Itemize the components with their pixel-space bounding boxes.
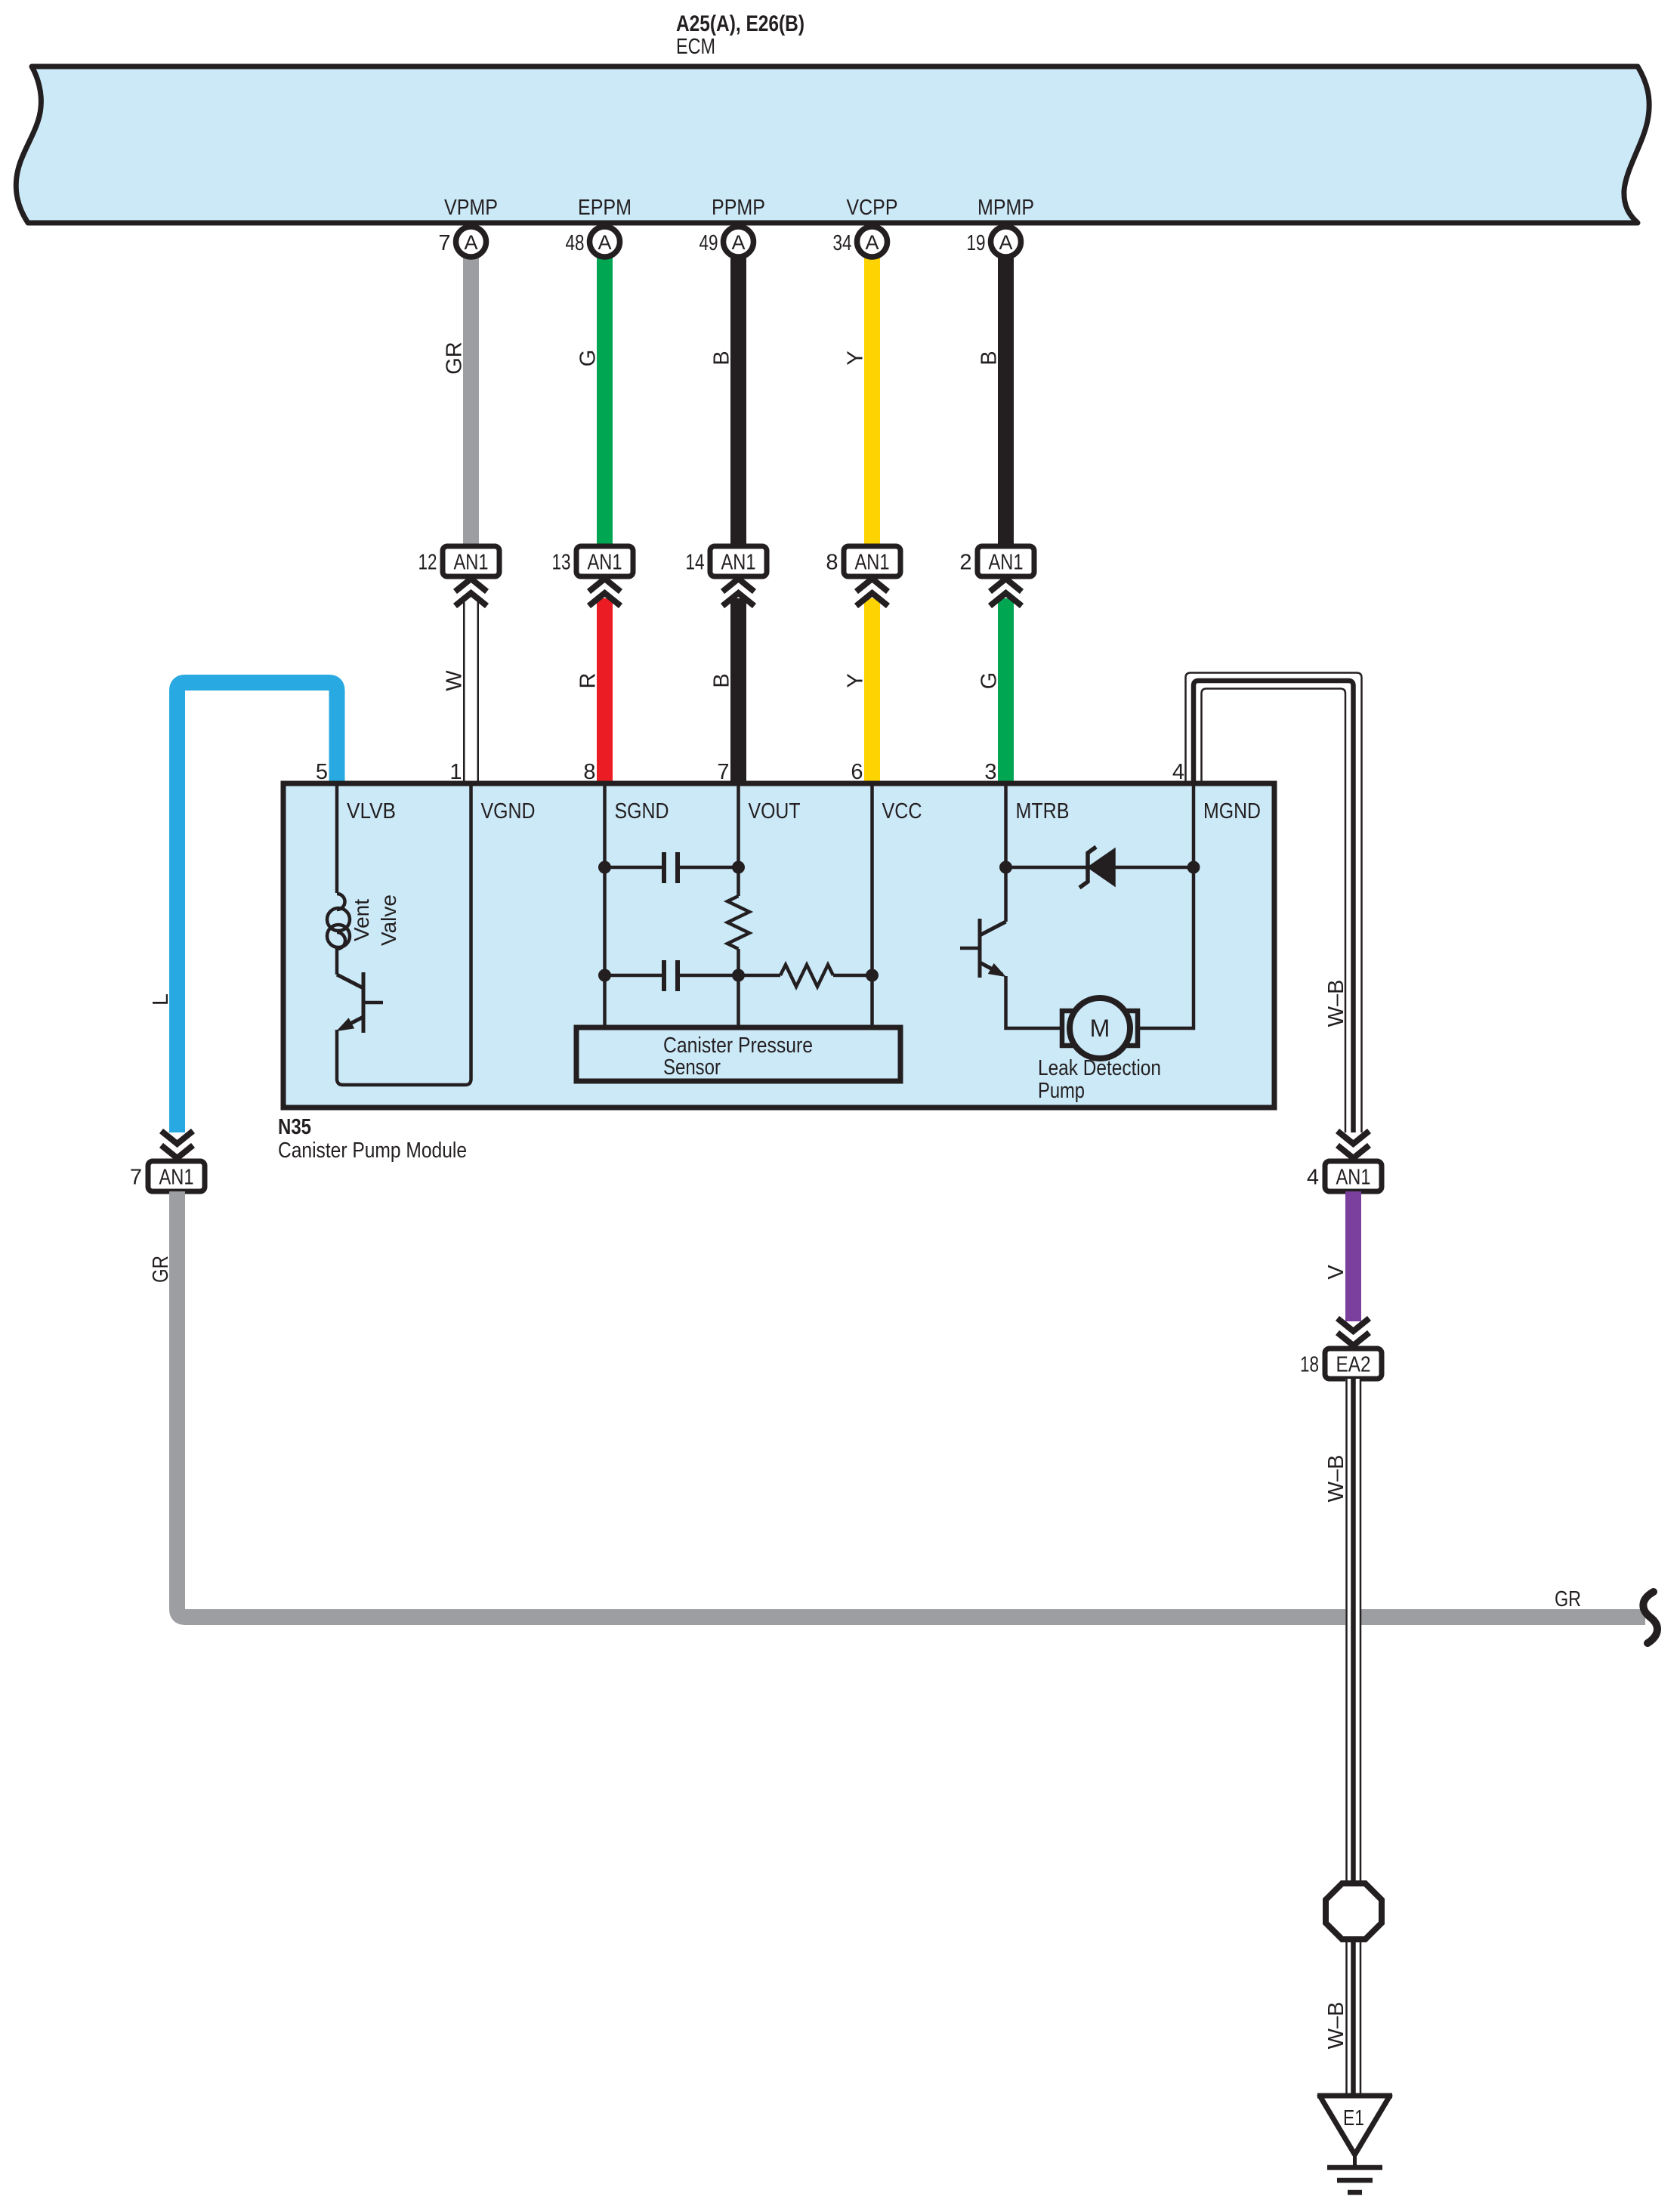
- svg-text:AN1: AN1: [588, 551, 622, 575]
- leak detection pump motor M: [1062, 998, 1138, 1058]
- svg-text:7: 7: [717, 760, 729, 784]
- svg-text:M: M: [1090, 1015, 1110, 1042]
- junction chevrons under AN1 2: [990, 579, 1022, 606]
- svg-text:1: 1: [449, 760, 462, 784]
- wire Y from AN1 to module pin: [844, 598, 881, 783]
- wire Y from ECM pin 34 to AN1: [844, 258, 881, 546]
- VOUT line with resistor R1: [727, 783, 749, 1027]
- resistor R2 horizontal: [739, 965, 872, 987]
- svg-text:A: A: [999, 231, 1012, 254]
- svg-text:Canister Pressure: Canister Pressure: [663, 1033, 813, 1058]
- svg-text:Canister Pump Module: Canister Pump Module: [278, 1139, 467, 1163]
- ECM connector terminal 19 (A): [967, 227, 1021, 257]
- capacitor C1: [605, 852, 739, 883]
- svg-text:VOUT: VOUT: [749, 799, 801, 823]
- ECM pin label MPMP: [977, 196, 1034, 220]
- wire G from ECM pin 48 to AN1: [576, 258, 613, 546]
- svg-text:VGND: VGND: [481, 799, 536, 823]
- module pin 4 MGND: [1172, 760, 1261, 823]
- svg-text:Sensor: Sensor: [663, 1055, 721, 1080]
- module N35 name label: [278, 1115, 467, 1163]
- module pin 8 SGND: [583, 760, 669, 823]
- svg-text:EA2: EA2: [1336, 1353, 1371, 1377]
- module pin 1 VGND: [449, 760, 535, 823]
- svg-text:VPMP: VPMP: [444, 196, 498, 220]
- wire W-B from MGND pin 4 to AN1 4: [1186, 673, 1362, 1133]
- svg-text:A25(A), E26(B): A25(A), E26(B): [676, 11, 804, 36]
- svg-text:A: A: [464, 231, 477, 254]
- ECM pin label VPMP: [444, 196, 498, 220]
- connector AN1 pin 13: [552, 546, 634, 576]
- svg-text:VCC: VCC: [882, 799, 922, 823]
- svg-text:E1: E1: [1343, 2106, 1364, 2130]
- svg-text:18: 18: [1300, 1353, 1319, 1377]
- wire B from AN1 to module pin: [710, 598, 747, 783]
- svg-text:4: 4: [1172, 760, 1184, 784]
- wire B from ECM pin 19 to AN1: [977, 258, 1014, 546]
- svg-text:B: B: [710, 673, 734, 687]
- svg-text:EPPM: EPPM: [578, 196, 632, 220]
- svg-text:GR: GR: [1555, 1587, 1581, 1611]
- svg-text:48: 48: [566, 231, 585, 255]
- ECM connector terminal 7 (A): [438, 227, 486, 257]
- capacitor C2: [605, 960, 739, 991]
- ECM connector terminal 48 (A): [566, 227, 620, 257]
- wire GR from ECM pin 7 to AN1: [443, 258, 480, 546]
- junction chevrons above EA2: [1338, 1318, 1370, 1346]
- svg-text:ECM: ECM: [676, 35, 715, 59]
- svg-text:13: 13: [552, 551, 571, 575]
- node on VCC: [866, 969, 879, 982]
- octagon splice junction: [1326, 1883, 1382, 1939]
- svg-text:W–B: W–B: [1324, 980, 1348, 1027]
- svg-text:AN1: AN1: [721, 551, 756, 575]
- connector AN1 pin 7: [130, 1161, 205, 1191]
- connector AN1 pin 8: [826, 546, 900, 576]
- svg-text:B: B: [977, 351, 1002, 365]
- svg-text:5: 5: [316, 760, 328, 784]
- ECM connector terminal 34 (A): [833, 227, 888, 257]
- leak pump transistor Q2: [960, 919, 1006, 978]
- svg-text:B: B: [710, 351, 734, 365]
- svg-text:7: 7: [438, 231, 450, 255]
- connector AN1 pin 14: [686, 546, 767, 576]
- svg-text:L: L: [149, 993, 173, 1006]
- svg-text:VCPP: VCPP: [847, 196, 898, 220]
- svg-text:N35: N35: [278, 1115, 311, 1139]
- node on SGND bottom: [598, 969, 611, 982]
- canister pressure sensor SGND line: [603, 783, 607, 1027]
- svg-text:AN1: AN1: [159, 1166, 194, 1190]
- connector AN1 pin 4: [1307, 1161, 1382, 1191]
- svg-text:8: 8: [583, 760, 595, 784]
- wire break squiggle at GR right end: [1643, 1592, 1657, 1643]
- wire Q2 emitter to motor: [1006, 976, 1067, 1028]
- motor to MGND wire: [1138, 783, 1194, 1028]
- wire W-B from octagon to ground E1: [1324, 1939, 1360, 2096]
- svg-text:7: 7: [130, 1166, 142, 1190]
- svg-text:PPMP: PPMP: [712, 196, 765, 220]
- wire R from AN1 to module pin: [576, 598, 613, 783]
- wire W-B from EA2 to octagon junction: [1324, 1379, 1361, 1883]
- junction chevrons under AN1 14: [723, 579, 755, 606]
- svg-text:2: 2: [959, 551, 971, 575]
- svg-text:AN1: AN1: [454, 551, 489, 575]
- svg-text:Y: Y: [844, 673, 868, 687]
- svg-text:19: 19: [967, 231, 986, 255]
- svg-text:V: V: [1324, 1265, 1348, 1280]
- svg-text:W: W: [443, 670, 467, 691]
- svg-text:A: A: [598, 231, 611, 254]
- svg-text:A: A: [731, 231, 745, 254]
- svg-text:GR: GR: [149, 1256, 173, 1283]
- junction chevrons above AN1 4: [1338, 1131, 1370, 1158]
- connector AN1 pin 12: [418, 546, 500, 576]
- vent valve coil L1: [327, 783, 400, 975]
- ECM title label: [676, 11, 804, 59]
- module pin 7 VOUT: [717, 760, 800, 823]
- svg-text:49: 49: [699, 231, 718, 255]
- svg-text:Y: Y: [844, 351, 868, 365]
- module N35 box: [283, 783, 1274, 1108]
- svg-text:VLVB: VLVB: [347, 799, 396, 823]
- svg-text:AN1: AN1: [989, 551, 1024, 575]
- svg-text:GR: GR: [443, 341, 467, 375]
- ground point E1: [1317, 2096, 1392, 2155]
- svg-text:SGND: SGND: [615, 799, 669, 823]
- svg-text:G: G: [576, 350, 601, 367]
- chassis ground symbol: [1327, 2155, 1382, 2192]
- node on VOUT bottom: [732, 969, 745, 982]
- svg-text:MTRB: MTRB: [1016, 799, 1070, 823]
- svg-text:W–B: W–B: [1324, 1455, 1348, 1503]
- module pin 6 VCC: [851, 760, 922, 823]
- svg-text:3: 3: [984, 760, 996, 784]
- junction chevrons under AN1 8: [857, 579, 888, 606]
- ECM connector terminal 49 (A): [699, 227, 754, 257]
- svg-text:Valve: Valve: [377, 894, 400, 946]
- svg-text:MGND: MGND: [1203, 799, 1261, 823]
- connector EA2 pin 18: [1300, 1349, 1382, 1379]
- canister pressure sensor box: [576, 1027, 900, 1081]
- svg-text:R: R: [576, 673, 601, 689]
- svg-text:Vent: Vent: [350, 899, 373, 941]
- ECM pin label PPMP: [712, 196, 765, 220]
- module pin 5 VLVB: [316, 760, 396, 823]
- wire B from ECM pin 49 to AN1: [710, 258, 747, 546]
- leak detection pump label: [1038, 1056, 1161, 1103]
- node on MGND: [1187, 861, 1200, 874]
- wire from vent valve to VGND pin: [337, 783, 471, 1085]
- svg-text:8: 8: [826, 551, 838, 575]
- svg-text:MPMP: MPMP: [977, 196, 1034, 220]
- svg-text:A: A: [865, 231, 879, 254]
- svg-text:14: 14: [686, 551, 705, 575]
- junction chevrons above AN1 7: [162, 1131, 193, 1158]
- vent valve transistor Q1: [337, 972, 383, 1033]
- wire L from module pin 5 to connector AN1 7 (blue): [149, 683, 337, 1133]
- wire V from AN1 4 to EA2 (violet): [1324, 1191, 1361, 1321]
- ECM pin label EPPM: [578, 196, 632, 220]
- ECM pin label VCPP: [847, 196, 898, 220]
- svg-text:AN1: AN1: [1336, 1166, 1371, 1190]
- svg-text:W–B: W–B: [1324, 2002, 1348, 2050]
- node on VOUT top: [732, 861, 745, 874]
- svg-text:34: 34: [833, 231, 852, 255]
- zener diode D1: [1006, 847, 1194, 888]
- svg-text:G: G: [977, 672, 1002, 690]
- node on SGND top: [598, 861, 611, 874]
- svg-text:6: 6: [851, 760, 863, 784]
- wire W from AN1 to module pin: [443, 598, 480, 783]
- wire G from AN1 to module pin: [977, 598, 1014, 783]
- svg-text:Leak Detection: Leak Detection: [1038, 1056, 1161, 1080]
- svg-text:Pump: Pump: [1038, 1079, 1085, 1103]
- junction chevrons under AN1 12: [456, 579, 487, 606]
- ECM block (A25(A), E26(B)): [16, 66, 1649, 223]
- MTRB line: [1004, 783, 1008, 922]
- node on MTRB: [999, 861, 1012, 874]
- wire GR from AN1 7 to right edge: [149, 1191, 1645, 1617]
- junction chevrons under AN1 13: [589, 579, 621, 606]
- svg-text:AN1: AN1: [855, 551, 890, 575]
- svg-text:12: 12: [418, 551, 437, 575]
- VCC line: [870, 783, 874, 1027]
- module pin 3 MTRB: [984, 760, 1069, 823]
- svg-text:4: 4: [1307, 1166, 1319, 1190]
- connector AN1 pin 2: [959, 546, 1034, 576]
